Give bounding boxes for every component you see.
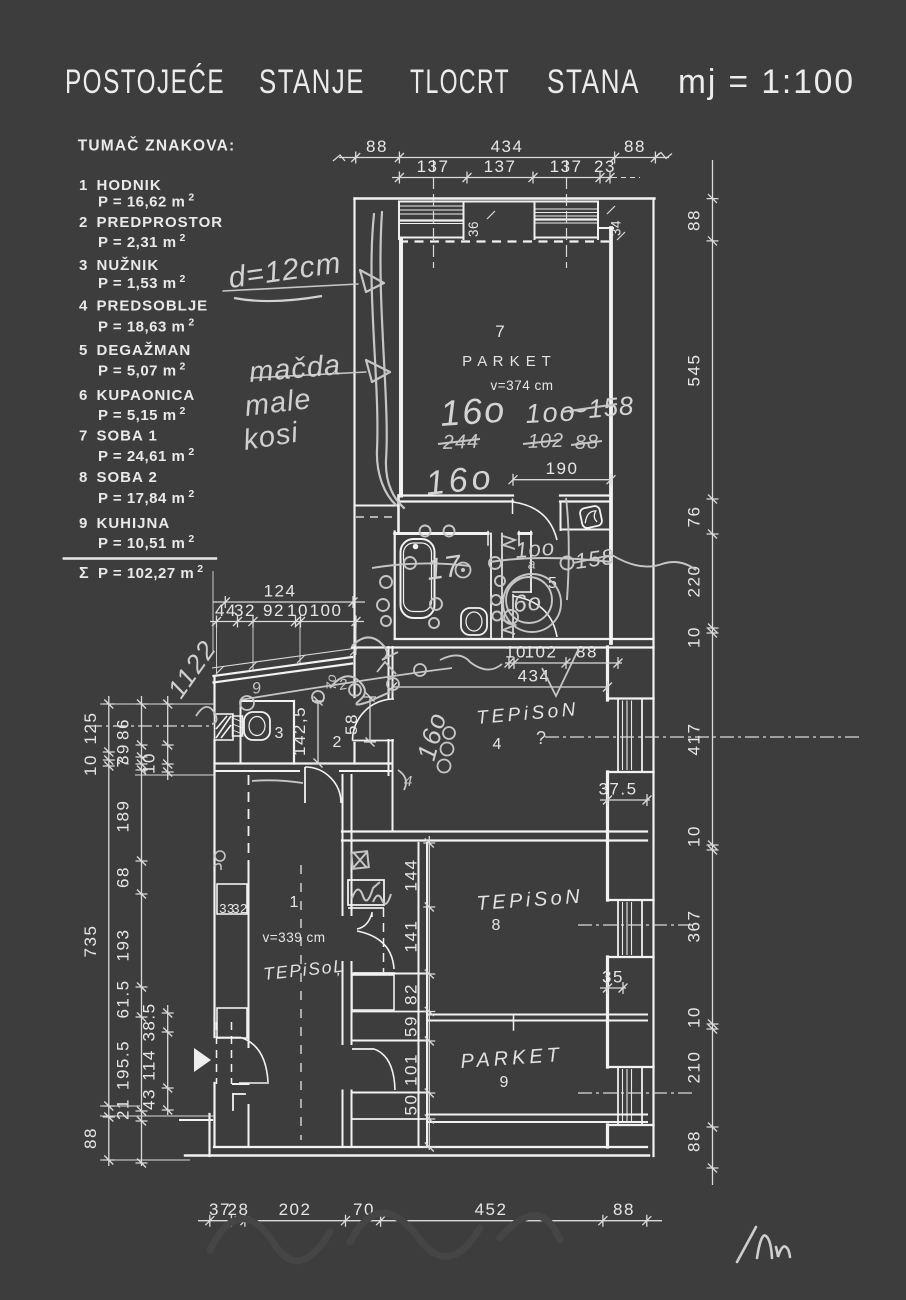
svg-text:7: 7 [495,322,504,341]
svg-text:190: 190 [546,459,579,478]
svg-text:KUPAONICA: KUPAONICA [97,387,196,404]
svg-text:P = 102,27 m2: P = 102,27 m2 [98,563,204,582]
svg-text:100: 100 [310,601,343,620]
svg-text:58: 58 [342,713,361,735]
svg-text:434: 434 [491,137,524,156]
svg-text:43: 43 [140,1088,159,1110]
svg-text:v=339 cm: v=339 cm [263,930,326,945]
svg-text:137: 137 [417,157,450,176]
svg-text:102: 102 [525,643,558,662]
svg-text:7: 7 [79,428,87,445]
svg-text:10: 10 [685,626,704,648]
svg-text:mj = 1:100: mj = 1:100 [678,63,855,101]
svg-text:5: 5 [79,342,87,359]
svg-text:6o: 6o [512,589,543,618]
svg-text:KUHIJNA: KUHIJNA [97,515,171,532]
svg-text:4: 4 [404,773,412,790]
svg-text:P = 2,31 m2: P = 2,31 m2 [98,232,186,251]
svg-text:88: 88 [613,1200,635,1219]
svg-text:21: 21 [114,1098,133,1120]
svg-text:3: 3 [275,725,284,742]
svg-text:9: 9 [500,1074,509,1091]
svg-text:10: 10 [685,1006,704,1028]
svg-text:202: 202 [279,1200,312,1219]
svg-text:137: 137 [550,157,583,176]
svg-text:TUMAČ ZNAKOVA:: TUMAČ ZNAKOVA: [78,137,236,155]
svg-text:124: 124 [264,582,297,601]
svg-text:8: 8 [492,917,501,934]
svg-text:7: 7 [114,757,133,768]
svg-text:8: 8 [79,469,87,486]
svg-text:Σ: Σ [79,565,89,582]
svg-text:SOBA 2: SOBA 2 [97,469,158,486]
svg-text:STANJE: STANJE [259,63,365,101]
svg-text:189: 189 [114,800,133,833]
svg-text:367: 367 [685,910,704,943]
svg-text:16o: 16o [424,458,496,503]
svg-text:114: 114 [140,1049,159,1081]
svg-text:6: 6 [79,387,87,404]
svg-text:68: 68 [114,866,133,888]
svg-text:23: 23 [594,157,616,176]
svg-text:4: 4 [79,298,88,315]
svg-text:92: 92 [263,601,285,620]
svg-text:141: 141 [401,920,420,953]
svg-text:88: 88 [81,1127,100,1149]
svg-text:NUŽNIK: NUŽNIK [97,256,160,274]
svg-text:2: 2 [79,214,87,231]
svg-text:59: 59 [401,1015,420,1037]
svg-text:∼158: ∼158 [564,390,636,426]
svg-text:34: 34 [609,220,624,236]
svg-text:HODNIK: HODNIK [97,177,162,194]
svg-text:210: 210 [685,1051,704,1084]
svg-text:193: 193 [114,929,133,962]
svg-text:38.5: 38.5 [140,1002,159,1041]
svg-text:?: ? [536,728,546,748]
svg-text:88: 88 [624,137,646,156]
svg-text:86: 86 [114,718,133,740]
svg-text:TLOCRT: TLOCRT [410,63,510,101]
svg-text:2: 2 [333,734,342,751]
svg-text:P = 18,63 m2: P = 18,63 m2 [98,317,195,336]
svg-text:545: 545 [685,354,704,387]
svg-text:35: 35 [602,968,624,987]
svg-text:PREDSOBLJE: PREDSOBLJE [97,298,209,315]
svg-text:POSTOJEĆE: POSTOJEĆE [65,63,225,101]
svg-text:144: 144 [401,859,420,892]
svg-text:16o: 16o [439,388,508,434]
svg-text:125: 125 [81,712,100,745]
svg-text:76: 76 [685,506,704,528]
svg-text:SOBA 1: SOBA 1 [97,428,158,445]
svg-text:10: 10 [287,601,309,620]
svg-text:142,5: 142,5 [290,706,309,756]
svg-text:P = 16,62 m2: P = 16,62 m2 [98,192,195,211]
svg-text:4: 4 [493,736,502,753]
svg-text:P = 10,51 m2: P = 10,51 m2 [98,533,195,552]
svg-text:735: 735 [81,925,100,958]
svg-text:1: 1 [290,894,299,911]
svg-text:P = 24,61 m2: P = 24,61 m2 [98,446,195,465]
svg-text:88: 88 [685,1130,704,1152]
svg-text:P = 17,84 m2: P = 17,84 m2 [98,488,195,507]
svg-text:32: 32 [234,601,256,620]
svg-text:P = 5,07 m2: P = 5,07 m2 [98,361,186,380]
svg-text:10: 10 [140,752,159,774]
svg-text:452: 452 [475,1200,508,1219]
svg-text:P = 1,53 m2: P = 1,53 m2 [98,273,186,292]
svg-text:36: 36 [466,221,481,237]
svg-text:101: 101 [401,1053,420,1086]
svg-text:10: 10 [685,825,704,847]
svg-text:3: 3 [79,257,87,274]
svg-text:STANA: STANA [547,63,640,101]
svg-text:P A R K E T: P A R K E T [462,353,552,370]
svg-text:PREDPROSTOR: PREDPROSTOR [97,214,224,231]
svg-text:88: 88 [366,137,388,156]
svg-text:82: 82 [401,983,420,1005]
svg-text:61.5: 61.5 [114,979,133,1018]
svg-text:50: 50 [401,1094,420,1116]
svg-text:9: 9 [79,515,87,532]
svg-text:P = 5,15 m2: P = 5,15 m2 [98,405,186,424]
svg-text:137: 137 [484,157,517,176]
svg-text:17: 17 [424,549,464,587]
svg-text:32: 32 [232,901,247,916]
svg-text:10: 10 [81,754,100,776]
svg-text:88: 88 [685,209,704,231]
svg-text:417: 417 [685,723,704,756]
svg-text:195.5: 195.5 [114,1040,133,1090]
svg-text:DEGAŽMAN: DEGAŽMAN [97,341,192,359]
svg-text:37.5: 37.5 [598,780,637,799]
svg-text:1: 1 [79,177,87,194]
svg-text:88: 88 [576,643,598,662]
